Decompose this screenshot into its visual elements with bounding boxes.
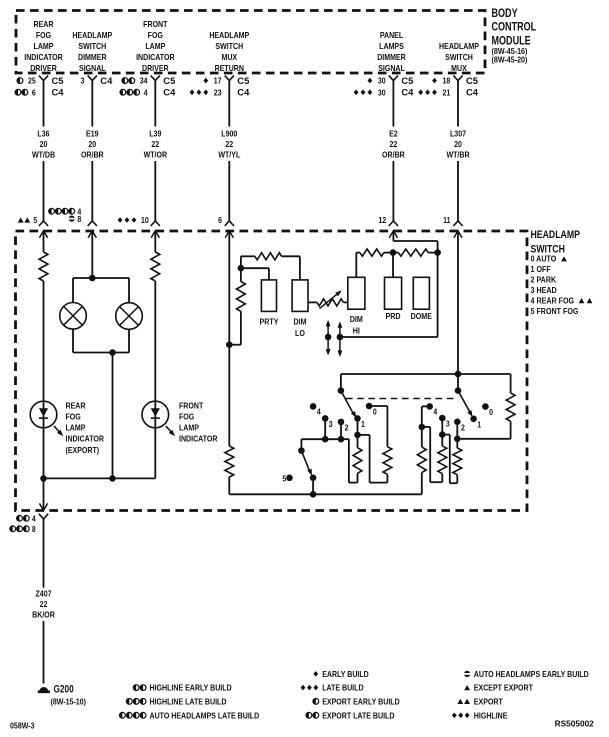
svg-text:WT/OR: WT/OR bbox=[144, 150, 168, 160]
switch feed line bbox=[341, 373, 511, 375]
PRD label bbox=[385, 311, 400, 321]
wire into DIM LO box bbox=[282, 256, 300, 280]
wire col6 down bbox=[457, 241, 459, 374]
svg-text:WT/BR: WT/BR bbox=[446, 150, 469, 160]
svg-text:DOME: DOME bbox=[411, 311, 432, 321]
resistor chain left bbox=[360, 249, 384, 256]
svg-text:LAMP: LAMP bbox=[145, 41, 165, 51]
svg-text:C5: C5 bbox=[401, 75, 413, 86]
PRD box bbox=[385, 277, 402, 309]
lamp return wire bbox=[112, 353, 114, 479]
svg-text:RETURN: RETURN bbox=[215, 63, 245, 73]
Headlamp Switch box (dashed) bbox=[16, 231, 528, 511]
entry arrow into switch x=458.0 bbox=[454, 231, 462, 241]
svg-text:HI: HI bbox=[353, 326, 360, 336]
connector pins C4/None at x=92.3 bbox=[81, 75, 113, 86]
resistor R3 (right sw) bbox=[417, 427, 426, 494]
fog wiper contact bbox=[310, 475, 317, 482]
svg-text:18: 18 bbox=[442, 76, 450, 86]
front fog LED label arrow bbox=[166, 426, 175, 436]
wire DIM HI top bbox=[356, 253, 360, 278]
legend export late build bbox=[306, 711, 395, 721]
rear fog lamp indicator LED bbox=[30, 401, 57, 428]
wire L36 upper segment bbox=[43, 81, 45, 127]
svg-text:1: 1 bbox=[361, 419, 366, 429]
svg-text:FOG: FOG bbox=[36, 30, 51, 40]
svg-text:FRONT: FRONT bbox=[143, 19, 168, 29]
wire col1 LED to ground bus bbox=[43, 428, 45, 478]
svg-text:8: 8 bbox=[77, 214, 81, 224]
DOME box bbox=[413, 277, 429, 309]
wiper linkage (dashed) bbox=[346, 398, 454, 400]
svg-text:DIM: DIM bbox=[293, 317, 306, 327]
svg-text:E2: E2 bbox=[389, 129, 398, 139]
svg-text:20: 20 bbox=[454, 139, 462, 149]
svg-text:DIMMER: DIMMER bbox=[78, 52, 107, 62]
svg-text:HEADLAMP: HEADLAMP bbox=[209, 30, 249, 40]
svg-text:4: 4 bbox=[32, 514, 37, 524]
svg-text:4: 4 bbox=[317, 407, 322, 417]
resistor col1 (rear fog) bbox=[39, 252, 48, 281]
svg-text:SWITCH: SWITCH bbox=[215, 41, 243, 51]
svg-text:WT/YL: WT/YL bbox=[218, 150, 240, 160]
junction fog contact/bus bbox=[310, 491, 317, 498]
fog common line bbox=[301, 438, 349, 440]
wire resistor to junction bbox=[240, 268, 242, 281]
wire rheostat to DIM HI bbox=[343, 301, 347, 303]
svg-text:HEADLAMP: HEADLAMP bbox=[439, 41, 479, 51]
wire col4 upper bbox=[228, 241, 230, 345]
wire D2 down bbox=[437, 253, 439, 337]
wire col1 exit bbox=[43, 478, 45, 509]
svg-text:SIGNAL: SIGNAL bbox=[378, 63, 405, 73]
wire right contact2 down bbox=[456, 422, 458, 439]
dimmer travel arrow left bbox=[326, 320, 331, 356]
ground bus wire (left) bbox=[44, 477, 156, 479]
wire L307 upper segment bbox=[457, 81, 459, 127]
svg-text:5: 5 bbox=[33, 216, 38, 226]
svg-text:C4: C4 bbox=[401, 87, 414, 98]
svg-text:REAR: REAR bbox=[34, 19, 54, 29]
wire left contact1 down bbox=[357, 418, 359, 435]
svg-text:34: 34 bbox=[140, 76, 148, 86]
connector fork at headlamp switch x=393.4 bbox=[389, 221, 398, 226]
svg-text:LO: LO bbox=[295, 328, 305, 338]
fog switch wiper bbox=[301, 451, 312, 476]
front fog lamp indicator LED bbox=[142, 401, 169, 428]
rear fog LED label bbox=[66, 401, 105, 455]
lamp bridge top wire bbox=[73, 278, 129, 303]
switch pin 5 label bbox=[18, 216, 38, 226]
junction D2 bbox=[434, 249, 441, 256]
legend late build bbox=[301, 683, 364, 693]
svg-text:DIM: DIM bbox=[350, 314, 363, 324]
DIM LO label bbox=[293, 317, 306, 338]
rheostat wiper arrow bbox=[320, 290, 342, 308]
svg-text:(EXPORT): (EXPORT) bbox=[66, 445, 100, 455]
left contact 2 bbox=[338, 419, 349, 433]
svg-text:C4: C4 bbox=[100, 75, 113, 86]
svg-text:INDICATOR: INDICATOR bbox=[179, 434, 218, 444]
svg-text:25: 25 bbox=[28, 76, 36, 86]
svg-text:17: 17 bbox=[214, 76, 222, 86]
dimmer travel arrow right bbox=[338, 321, 343, 357]
svg-text:1 OFF: 1 OFF bbox=[531, 264, 551, 274]
wire Z407 upper bbox=[43, 519, 45, 588]
svg-text:FOG: FOG bbox=[148, 30, 163, 40]
wire R4-R5 loop bbox=[442, 435, 457, 484]
svg-text:BODY: BODY bbox=[492, 8, 518, 20]
BCM title bbox=[492, 8, 537, 65]
svg-text:REAR: REAR bbox=[66, 401, 86, 411]
svg-text:20: 20 bbox=[40, 139, 48, 149]
feed line left drop bbox=[340, 374, 342, 391]
Body Control Module box (dashed) bbox=[16, 11, 485, 74]
svg-text:4: 4 bbox=[433, 407, 438, 417]
svg-text:6: 6 bbox=[32, 88, 36, 98]
svg-text:INDICATOR: INDICATOR bbox=[136, 52, 175, 62]
svg-text:Z407: Z407 bbox=[35, 589, 51, 599]
entry arrow into switch x=155.3 bbox=[151, 231, 159, 241]
fog wiper pivot bbox=[298, 447, 305, 454]
svg-text:FOG: FOG bbox=[179, 412, 194, 422]
legend export bbox=[457, 697, 503, 707]
svg-text:PRTY: PRTY bbox=[259, 317, 279, 327]
exit pin 8 label bbox=[10, 524, 36, 534]
svg-text:LAMPS: LAMPS bbox=[379, 41, 404, 51]
junction col6 / feed line bbox=[455, 371, 462, 378]
connector fork at headlamp switch x=229.3 bbox=[225, 221, 234, 226]
svg-text:2: 2 bbox=[461, 423, 465, 433]
DIM LO box bbox=[292, 280, 308, 312]
DOME label bbox=[411, 311, 432, 321]
wire R2 loop bbox=[358, 435, 388, 483]
lamp bridge bottom wire bbox=[73, 329, 129, 352]
svg-text:LAMP: LAMP bbox=[66, 423, 86, 433]
svg-text:2: 2 bbox=[345, 423, 349, 433]
resistor PRTY feed bbox=[237, 282, 246, 312]
switch pin 4 label bbox=[49, 207, 82, 217]
entry arrow into switch x=393.4 bbox=[389, 231, 397, 241]
wire label L307 WT/BR bbox=[446, 129, 469, 160]
svg-text:SWITCH: SWITCH bbox=[445, 52, 473, 62]
legend early build bbox=[313, 669, 369, 679]
svg-text:30: 30 bbox=[378, 76, 386, 86]
svg-text:AUTO HEADLAMPS LATE BUILD: AUTO HEADLAMPS LATE BUILD bbox=[150, 711, 260, 721]
junction lamp return/ground bus bbox=[109, 475, 116, 482]
wire D2 to dimmer arrows bbox=[340, 336, 438, 338]
switch pin 8 label bbox=[69, 214, 82, 224]
wire col3 LED to ground bus bbox=[154, 428, 156, 478]
drawing number RS505002 bbox=[555, 719, 595, 729]
switch return bus (bottom) bbox=[229, 493, 421, 495]
Headlamp Switch title bbox=[531, 229, 581, 255]
svg-text:PRD: PRD bbox=[385, 311, 400, 321]
svg-text:INDICATOR: INDICATOR bbox=[24, 52, 63, 62]
junction contact1/R1 bbox=[354, 432, 361, 439]
right contact 4 bbox=[426, 403, 438, 417]
wire left contact 2 down bbox=[340, 422, 342, 439]
wire 439-line to R1 bottom bbox=[349, 439, 358, 482]
svg-text:22: 22 bbox=[389, 139, 397, 149]
DIM HI box bbox=[348, 277, 365, 309]
BCM pin label HEADLAMP RETURN bbox=[209, 30, 249, 73]
svg-text:C5: C5 bbox=[52, 75, 64, 86]
wire fog contact to bus bbox=[312, 478, 314, 495]
PRTY label bbox=[259, 317, 279, 327]
entry arrow into switch x=43.5 bbox=[39, 231, 47, 241]
wire E2 lower segment bbox=[392, 161, 394, 221]
PRTY box bbox=[261, 280, 276, 312]
svg-text:0: 0 bbox=[489, 408, 493, 418]
svg-text:EXPORT LATE BUILD: EXPORT LATE BUILD bbox=[322, 711, 395, 721]
svg-text:OR/BR: OR/BR bbox=[382, 150, 405, 160]
resistor chain right bbox=[393, 249, 438, 256]
resistor col4 lower bbox=[225, 446, 234, 477]
right contact 3 bbox=[439, 415, 450, 429]
connector fork at headlamp switch x=155.3 bbox=[151, 221, 160, 226]
svg-text:DIMMER: DIMMER bbox=[377, 52, 406, 62]
resistor R5 (right sw) bbox=[453, 439, 462, 483]
svg-text:PANEL: PANEL bbox=[380, 30, 404, 40]
front fog LED label bbox=[179, 401, 218, 444]
svg-text:23: 23 bbox=[214, 88, 222, 98]
svg-text:SWITCH: SWITCH bbox=[78, 41, 106, 51]
wire E19 upper segment bbox=[91, 81, 93, 127]
svg-text:12: 12 bbox=[378, 216, 386, 226]
junction col2 top of lamp bridge bbox=[89, 275, 96, 282]
svg-text:EXCEPT EXPORT: EXCEPT EXPORT bbox=[474, 683, 533, 693]
svg-text:4: 4 bbox=[144, 88, 149, 98]
svg-text:OR/BR: OR/BR bbox=[81, 150, 104, 160]
wire Z407 lower bbox=[43, 621, 45, 684]
junction PRTY/DIM LO feed bbox=[238, 265, 245, 272]
wire right contact4 to R3 bbox=[422, 406, 430, 427]
svg-text:0: 0 bbox=[373, 407, 377, 417]
svg-text:L36: L36 bbox=[37, 129, 49, 139]
right contact 1 bbox=[470, 416, 482, 430]
connector fork at headlamp switch x=458.0 bbox=[453, 221, 462, 226]
wire into junction D1 bbox=[384, 252, 393, 254]
svg-text:LATE BUILD: LATE BUILD bbox=[322, 683, 364, 693]
switch position legend bbox=[531, 254, 593, 316]
legend export early build bbox=[313, 697, 400, 707]
right contact 0 bbox=[482, 403, 493, 417]
G200 label bbox=[51, 683, 87, 706]
svg-text:3: 3 bbox=[81, 76, 85, 86]
svg-text:WT/DB: WT/DB bbox=[32, 150, 55, 160]
DIM HI label bbox=[350, 314, 363, 335]
resistor col3 (front fog) bbox=[151, 252, 160, 281]
svg-text:AUTO HEADLAMPS EARLY BUILD: AUTO HEADLAMPS EARLY BUILD bbox=[474, 669, 589, 679]
junction dimmer arrow left bbox=[325, 334, 332, 341]
svg-text:10: 10 bbox=[141, 216, 149, 226]
left contact 1 bbox=[354, 415, 365, 429]
svg-text:EXPORT EARLY BUILD: EXPORT EARLY BUILD bbox=[322, 697, 400, 707]
BCM pin label HEADLAMP SIGNAL bbox=[72, 30, 112, 73]
connector pins C5/C4 at x=155.3 bbox=[120, 75, 176, 98]
branch wire to PRTY network bbox=[229, 311, 241, 344]
wire to fog wiper pivot bbox=[300, 439, 302, 450]
svg-text:DRIVER: DRIVER bbox=[30, 63, 57, 73]
wire label E2 OR/BR bbox=[382, 129, 405, 160]
wire right contact3 down bbox=[441, 418, 443, 435]
svg-text:C4: C4 bbox=[466, 87, 479, 98]
svg-text:BK/OR: BK/OR bbox=[32, 610, 55, 620]
wire col2 to lamp bridge bbox=[91, 241, 93, 278]
fog contact 5 bbox=[282, 474, 292, 484]
svg-text:MUX: MUX bbox=[451, 63, 467, 73]
sheet number 058W-3 bbox=[10, 721, 35, 731]
svg-text:MUX: MUX bbox=[221, 52, 237, 62]
svg-text:FOG: FOG bbox=[66, 412, 81, 422]
wire col3 into resistor bbox=[154, 241, 156, 252]
svg-text:5: 5 bbox=[282, 474, 287, 484]
svg-text:21: 21 bbox=[442, 88, 450, 98]
exit pin 4 label bbox=[17, 514, 37, 524]
svg-text:C5: C5 bbox=[466, 75, 478, 86]
resistor R1 (left sw) bbox=[353, 435, 362, 483]
wire right resistor to contact 2 line bbox=[457, 421, 510, 439]
wire L307 lower segment bbox=[457, 161, 459, 221]
resistor right feed bbox=[506, 393, 515, 421]
svg-text:11: 11 bbox=[443, 216, 451, 226]
resistor DIM LO feed bbox=[255, 253, 282, 260]
junction lamp bridge return bbox=[109, 349, 116, 356]
junction contact3/R4 bbox=[439, 431, 446, 438]
wire R3-R4 loop bbox=[422, 427, 443, 482]
wire to PRTY box bbox=[241, 268, 269, 280]
wire L39 upper segment bbox=[154, 81, 156, 127]
BCM pin label REAR DRIVER bbox=[24, 19, 63, 73]
wire DIM LO to rheostat bbox=[308, 301, 317, 303]
wire L900 lower segment bbox=[228, 161, 230, 221]
entry arrow into switch x=229.3 bbox=[225, 231, 233, 241]
svg-text:L307: L307 bbox=[450, 129, 466, 139]
ground G200 symbol bbox=[38, 687, 50, 692]
switch pin 10 label bbox=[118, 216, 149, 226]
switch pin 12 label bbox=[378, 216, 386, 226]
right wiper pivot bbox=[455, 387, 462, 394]
svg-text:HIGHLINE LATE BUILD: HIGHLINE LATE BUILD bbox=[150, 697, 227, 707]
svg-text:E19: E19 bbox=[86, 129, 99, 139]
connector pins C5/C4 at x=43.5 bbox=[15, 75, 64, 98]
wire E2 upper segment bbox=[392, 81, 394, 127]
BCM pin label PANEL SIGNAL bbox=[377, 30, 406, 73]
svg-text:FRONT: FRONT bbox=[179, 401, 204, 411]
wire label L900 WT/YL bbox=[218, 129, 240, 160]
rear fog LED label arrow bbox=[54, 426, 63, 436]
right switch wiper bbox=[458, 391, 473, 417]
junction c2/439-line bbox=[338, 436, 345, 443]
svg-text:3: 3 bbox=[329, 419, 333, 429]
legend auto headlamps late build bbox=[120, 711, 260, 721]
svg-text:058W-3: 058W-3 bbox=[10, 721, 35, 731]
svg-text:C5: C5 bbox=[237, 75, 249, 86]
wire col1 to LED bbox=[43, 281, 45, 401]
wire L39 lower segment bbox=[154, 161, 156, 221]
svg-text:8: 8 bbox=[32, 524, 36, 534]
svg-text:C4: C4 bbox=[163, 87, 176, 98]
svg-text:G200: G200 bbox=[54, 683, 74, 695]
illumination lamp right bbox=[116, 303, 143, 330]
svg-text:22: 22 bbox=[40, 599, 48, 609]
legend highline early build bbox=[133, 683, 232, 693]
connector fork at headlamp switch x=92.3 bbox=[88, 221, 97, 226]
left switch wiper bbox=[341, 391, 356, 418]
svg-text:3 HEAD: 3 HEAD bbox=[531, 285, 557, 295]
resistor R4 (right sw) bbox=[438, 435, 447, 483]
svg-text:(8W-15-10): (8W-15-10) bbox=[51, 697, 87, 707]
legend except export bbox=[464, 683, 533, 693]
svg-text:HEADLAMP: HEADLAMP bbox=[72, 30, 112, 40]
wire col4 to switch bus bbox=[228, 477, 230, 494]
switch pin 11 label bbox=[443, 216, 451, 226]
junction D1 bbox=[390, 249, 397, 256]
svg-text:C4: C4 bbox=[52, 87, 65, 98]
legend highline bbox=[452, 711, 508, 721]
legend highline late build bbox=[126, 697, 226, 707]
wire label Z407 BK/OR bbox=[32, 589, 55, 620]
junction col4 branch bbox=[226, 341, 233, 348]
svg-text:22: 22 bbox=[151, 139, 159, 149]
svg-text:DRIVER: DRIVER bbox=[142, 63, 169, 73]
left contact 3 bbox=[322, 415, 333, 429]
wire feed to right resistor bbox=[510, 374, 512, 393]
svg-text:20: 20 bbox=[88, 139, 96, 149]
svg-text:RS505002: RS505002 bbox=[555, 719, 595, 729]
exit connector fork bbox=[39, 514, 48, 519]
svg-text:C5: C5 bbox=[163, 75, 175, 86]
svg-text:INDICATOR: INDICATOR bbox=[66, 434, 105, 444]
BCM pin label FRONT DRIVER bbox=[136, 19, 175, 73]
wire up to DIM LO resistor bbox=[241, 256, 255, 268]
resistor R2 (left sw) bbox=[383, 406, 392, 483]
legend auto headlamps early build bbox=[464, 669, 589, 679]
svg-text:C4: C4 bbox=[237, 87, 250, 98]
wire col4 lower bbox=[228, 345, 230, 446]
connector fork at headlamp switch x=43.5 bbox=[39, 221, 48, 226]
wire E2 jog bbox=[393, 241, 437, 253]
svg-text:L39: L39 bbox=[149, 129, 161, 139]
svg-text:SIGNAL: SIGNAL bbox=[79, 63, 106, 73]
wire label L36 WT/DB bbox=[32, 129, 55, 160]
wire left contact 3 down bbox=[324, 418, 326, 439]
junction dimmer arrow right bbox=[337, 334, 344, 341]
connector pins C5/C4 at x=458.0 bbox=[418, 75, 478, 98]
svg-text:HIGHLINE EARLY BUILD: HIGHLINE EARLY BUILD bbox=[150, 683, 233, 693]
switch pin 6 label bbox=[218, 216, 222, 226]
wire col3 to LED bbox=[154, 281, 156, 401]
junction col1/ground bus bbox=[40, 475, 47, 482]
svg-text:EXPORT: EXPORT bbox=[474, 697, 503, 707]
svg-text:1: 1 bbox=[477, 420, 482, 430]
rheostat (dimmer) bbox=[317, 299, 343, 306]
svg-text:5 FRONT FOG: 5 FRONT FOG bbox=[531, 306, 579, 316]
svg-text:3: 3 bbox=[446, 419, 450, 429]
right contact 2 bbox=[454, 419, 465, 433]
wire D1 to PRD box bbox=[392, 253, 394, 278]
svg-text:(8W-45-20): (8W-45-20) bbox=[492, 55, 528, 65]
svg-text:6: 6 bbox=[218, 216, 222, 226]
left contact 0 bbox=[366, 403, 377, 417]
svg-text:0 AUTO: 0 AUTO bbox=[531, 254, 557, 264]
junction c3/439-line bbox=[322, 436, 329, 443]
svg-text:HEADLAMP: HEADLAMP bbox=[531, 229, 581, 241]
illumination lamp left bbox=[60, 303, 87, 330]
wire L900 upper segment bbox=[228, 81, 230, 127]
junction contact4/R3 bbox=[419, 424, 426, 431]
